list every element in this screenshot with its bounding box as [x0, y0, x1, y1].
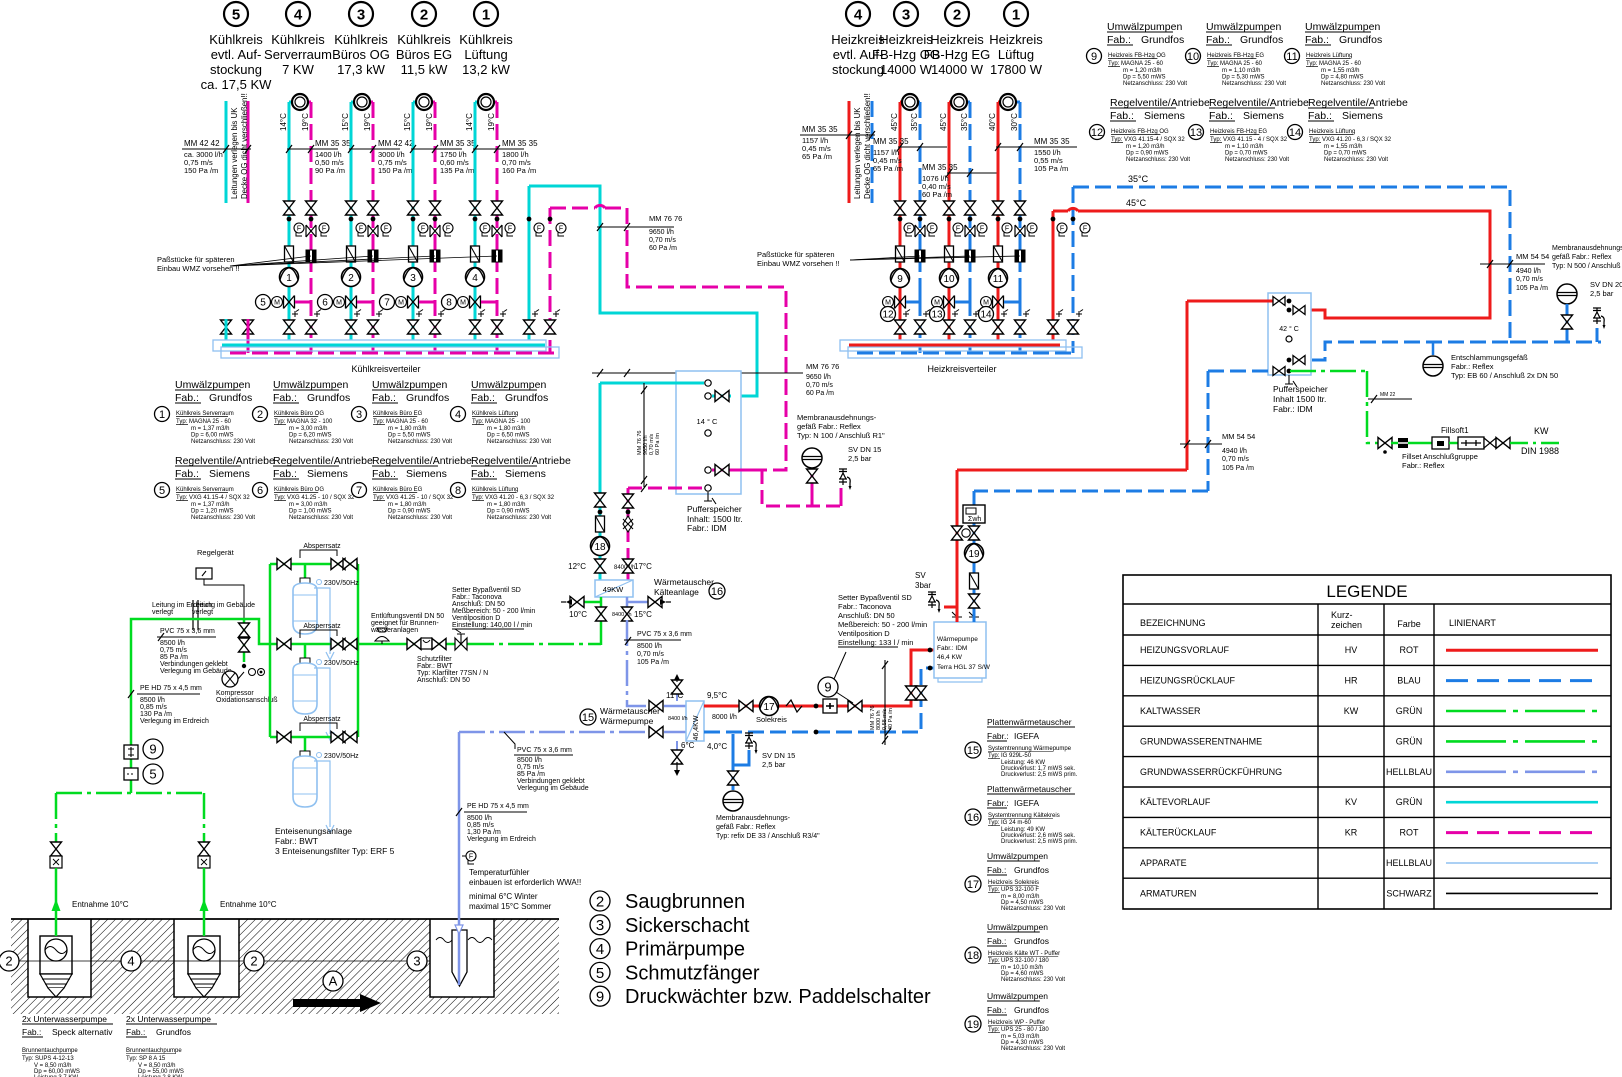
svg-text:HEIZUNGSRÜCKLAUF: HEIZUNGSRÜCKLAUF	[1140, 676, 1236, 686]
svg-text:Membranausdehnungs-: Membranausdehnungs-	[716, 815, 791, 822]
svg-text:Oxidationsanschluß: Oxidationsanschluß	[216, 697, 277, 704]
svg-text:BEZEICHNUNG: BEZEICHNUNG	[1140, 618, 1206, 628]
svg-text:Setter Bypaßventil SD: Setter Bypaßventil SD	[838, 593, 912, 602]
svg-text:9: 9	[1091, 51, 1097, 63]
svg-text:14000 W: 14000 W	[880, 62, 933, 77]
valve bottom KV 2	[346, 320, 357, 334]
fill plus marks	[292, 310, 299, 318]
svg-text:230V/50Hz: 230V/50Hz	[324, 660, 359, 667]
svg-text:40°C: 40°C	[988, 113, 997, 131]
svg-text:m = 1,20 m3/h: m = 1,20 m3/h	[1126, 144, 1165, 150]
valve header KR	[545, 320, 556, 334]
circuit label 2	[945, 2, 969, 26]
svg-text:verlegt: verlegt	[192, 609, 213, 616]
infiltration probe	[436, 938, 492, 943]
svg-text:Primärpumpe: Primärpumpe	[625, 939, 745, 961]
svg-text:9: 9	[824, 680, 831, 695]
svg-text:35°C: 35°C	[960, 113, 969, 131]
fill plus marks	[478, 310, 485, 318]
pipe HR tank to WP	[1207, 371, 1210, 491]
pipe KR from exchanger	[627, 488, 630, 580]
valve bottom HV 10	[944, 320, 955, 334]
drain line 230V	[314, 588, 334, 660]
fill plus marks	[354, 310, 361, 318]
svg-text:Regelventile/Antriebe: Regelventile/Antriebe	[175, 455, 275, 467]
svg-text:Umwälzpumpen: Umwälzpumpen	[372, 379, 447, 391]
svg-text:2,5 bar: 2,5 bar	[848, 454, 872, 463]
strainer KV 1	[285, 246, 294, 262]
submersible pump well 2	[188, 936, 220, 974]
svg-text:Schmutzfänger: Schmutzfänger	[625, 962, 760, 984]
svg-text:Kühlkreis: Kühlkreis	[271, 32, 325, 47]
valve bottom KV 4	[470, 320, 481, 334]
svg-text:Lüftung: Lüftung	[464, 47, 507, 62]
svg-text:m = 3,00 m3/h: m = 3,00 m3/h	[289, 502, 328, 508]
valve shutoff HR 9	[915, 201, 926, 215]
svg-text:evtl. Auf-: evtl. Auf-	[211, 47, 262, 62]
fill plus header	[1056, 310, 1063, 318]
svg-text:Dp = 1,00 mWS: Dp = 1,00 mWS	[289, 509, 332, 515]
passpiece WMZ KR 4	[492, 250, 502, 262]
valve drain HR 10	[965, 225, 975, 237]
callout A flow direction	[323, 971, 343, 991]
svg-text:Typ: EB 60 / Anschluß 2x DN 50: Typ: EB 60 / Anschluß 2x DN 50	[1451, 371, 1558, 380]
svg-text:Netzanschluss: 230 Volt: Netzanschluss: 230 Volt	[1222, 81, 1286, 87]
svg-text:m = 1,80 m3/h: m = 1,80 m3/h	[388, 426, 427, 432]
setter bypass valve	[455, 638, 467, 650]
svg-text:45°C: 45°C	[939, 113, 948, 131]
svg-text:60 Pa /m: 60 Pa /m	[922, 190, 952, 199]
svg-text:Heizkreis WP - Puffer: Heizkreis WP - Puffer	[988, 1020, 1045, 1026]
svg-text:Kühlkreis Lüftung: Kühlkreis Lüftung	[472, 487, 518, 493]
svg-text:Dp = 6,00 mWS: Dp = 6,00 mWS	[191, 433, 234, 439]
svg-text:5: 5	[232, 7, 240, 24]
strainer KV 2	[347, 246, 356, 262]
pipe KR riser circuit pump 1	[310, 102, 313, 353]
svg-text:DIN 1988: DIN 1988	[1521, 446, 1559, 456]
svg-text:Regelventile/Antriebe: Regelventile/Antriebe	[1308, 97, 1408, 109]
pump P9 Heizkreis	[891, 269, 910, 288]
gauge F KR 2	[381, 223, 391, 236]
svg-text:MM 35 35: MM 35 35	[1034, 137, 1070, 146]
pipe HR expansion branch DE33	[733, 734, 749, 765]
svg-text:Siemens: Siemens	[406, 468, 447, 480]
svg-text:3 Enteisenungsfilter Typ: ERF: 3 Enteisenungsfilter Typ: ERF 5	[275, 846, 395, 856]
passpiece WMZ HR 10	[965, 250, 975, 262]
svg-text:Σwh: Σwh	[968, 516, 981, 523]
link line pumps	[9, 960, 430, 962]
svg-text:17800 W: 17800 W	[990, 62, 1043, 77]
passpiece WMZ KR 1	[306, 250, 316, 262]
svg-text:Schutzfilter: Schutzfilter	[417, 656, 452, 663]
svg-text:4: 4	[472, 273, 478, 284]
svg-text:MM 35 35: MM 35 35	[502, 139, 538, 148]
pipe KV to exchanger	[599, 383, 602, 580]
svg-text:4: 4	[854, 7, 863, 24]
svg-text:Grundfos: Grundfos	[156, 1027, 191, 1037]
valve shutoff KR 4	[492, 201, 503, 215]
svg-text:Typ: IG 929L-50: Typ: IG 929L-50	[988, 753, 1032, 759]
svg-text:KW: KW	[1534, 426, 1549, 436]
svg-text:Typ: VXG 41.15 - 4 / SQX 32: Typ: VXG 41.15 - 4 / SQX 32	[1210, 137, 1288, 143]
svg-text:2,5 bar: 2,5 bar	[762, 760, 786, 769]
svg-text:Heizkreis FB-Hzg EG: Heizkreis FB-Hzg EG	[1210, 129, 1267, 135]
sensor dots	[411, 217, 416, 222]
svg-text:19°C: 19°C	[301, 113, 310, 131]
fill plus marks	[952, 310, 959, 318]
gauge F HR 11	[1027, 223, 1037, 236]
svg-text:13: 13	[1190, 127, 1202, 139]
svg-text:Speck alternativ: Speck alternativ	[52, 1027, 113, 1037]
svg-text:Kühlkreis: Kühlkreis	[334, 32, 388, 47]
svg-text:Verlegung im Erdreich: Verlegung im Erdreich	[467, 836, 536, 843]
svg-text:Regelventile/Antriebe: Regelventile/Antriebe	[273, 455, 373, 467]
valve shutoff HV 9	[895, 201, 906, 215]
valve drain KR 1	[306, 225, 316, 237]
svg-text:17°C: 17°C	[634, 562, 652, 571]
svg-text:12: 12	[1091, 127, 1103, 139]
safety valve SV DN15 left	[840, 488, 843, 506]
callout 3 well3	[407, 951, 427, 971]
svg-text:Heizkreis FB-Hzg OG: Heizkreis FB-Hzg OG	[1111, 129, 1169, 135]
svg-text:5: 5	[260, 298, 266, 309]
pipe KW main to plant room	[358, 643, 468, 646]
callout 4 middle	[121, 951, 141, 971]
svg-text:Umwälzpumpen: Umwälzpumpen	[1206, 21, 1281, 33]
legend row ARMATUREN	[1123, 877, 1611, 879]
svg-text:Fabr.: Taconova: Fabr.: Taconova	[452, 594, 502, 601]
svg-text:Decke OG dicht verschließen!!: Decke OG dicht verschließen!!	[240, 93, 249, 199]
valve drain HR 11	[1015, 225, 1025, 237]
svg-text:Fab.:: Fab.:	[471, 468, 495, 480]
bypass HR stub	[906, 301, 920, 304]
svg-text:Siemens: Siemens	[209, 468, 250, 480]
svg-text:Meßbereich: 50 - 200 l/min: Meßbereich: 50 - 200 l/min	[838, 620, 927, 629]
svg-text:Typ: UPS 32-100 F: Typ: UPS 32-100 F	[988, 887, 1039, 893]
svg-text:Verlegung im Erdreich: Verlegung im Erdreich	[140, 718, 209, 725]
svg-text:Fab.:: Fab.:	[273, 392, 297, 404]
gauge F KV 1	[294, 223, 304, 236]
svg-text:MM 35 35: MM 35 35	[922, 163, 958, 172]
deironing row 1	[270, 563, 358, 566]
svg-text:Paßstücke für späteren: Paßstücke für späteren	[157, 255, 235, 264]
svg-text:Fabr.:: Fabr.:	[987, 798, 1009, 808]
svg-text:2: 2	[250, 954, 257, 969]
valve into exchanger bottom	[649, 727, 663, 738]
pipe KR riser circuit pump 4	[496, 102, 499, 353]
sensor dots	[473, 217, 478, 222]
svg-text:Typ: VXG 41.25 - 10 / SQX 32: Typ: VXG 41.25 - 10 / SQX 32	[274, 495, 355, 501]
svg-text:Netzanschluss: 230 Volt: Netzanschluss: 230 Volt	[1123, 81, 1187, 87]
drain line 230V	[314, 668, 334, 740]
svg-text:Fabr.: IDM: Fabr.: IDM	[937, 645, 967, 652]
svg-text:Druckverlust: 2,5 mWS prim.: Druckverlust: 2,5 mWS prim.	[1001, 839, 1078, 845]
valve bottom KR 1	[306, 320, 317, 334]
pump P19	[965, 544, 984, 563]
well 1 Saugbrunnen	[28, 919, 91, 997]
expansion vessel N100 connection	[811, 466, 814, 506]
circuit label 3	[349, 2, 373, 26]
svg-text:minimal 6°C Winter: minimal 6°C Winter	[469, 892, 538, 901]
svg-text:4940 l/h: 4940 l/h	[1516, 268, 1541, 275]
svg-text:Grundfos: Grundfos	[209, 392, 252, 404]
svg-text:Netzanschluss: 230 Volt: Netzanschluss: 230 Volt	[1324, 157, 1388, 163]
heat exchanger 49KW Kaelteanlage	[595, 580, 633, 597]
control valve M 7	[396, 296, 419, 309]
svg-text:Typ: SUPS 4-12-13: Typ: SUPS 4-12-13	[22, 1056, 74, 1062]
svg-text:2: 2	[596, 893, 604, 910]
svg-text:Umwälzpumpen: Umwälzpumpen	[273, 379, 348, 391]
svg-text:GRUNDWASSERENTNAHME: GRUNDWASSERENTNAHME	[1140, 736, 1262, 746]
svg-text:Wärmepumpe: Wärmepumpe	[937, 636, 978, 643]
svg-text:ROT: ROT	[1400, 645, 1420, 655]
sensor dots header	[1051, 217, 1056, 222]
setter valve	[848, 701, 862, 712]
pump top circuit 1	[292, 94, 308, 110]
svg-text:Grundfos: Grundfos	[1240, 34, 1283, 46]
pipe HV header riser	[1052, 211, 1055, 340]
svg-text:9650 l/h: 9650 l/h	[649, 229, 674, 236]
svg-text:Heizkreis Kälte WT - Puffer: Heizkreis Kälte WT - Puffer	[988, 951, 1060, 957]
svg-text:Netzanschluss: 230 Volt: Netzanschluss: 230 Volt	[1001, 977, 1065, 983]
svg-text:3: 3	[356, 409, 362, 421]
fill group valves	[1378, 438, 1392, 449]
svg-text:35°C: 35°C	[1128, 174, 1149, 184]
svg-text:Anschluß: DN 50: Anschluß: DN 50	[417, 677, 470, 684]
pump top circuit 3	[416, 94, 432, 110]
flow label MM22	[1368, 398, 1412, 400]
svg-text:m = 1,37 m3/h: m = 1,37 m3/h	[191, 502, 230, 508]
protective filter Schutzfilter	[407, 639, 421, 650]
svg-text:Umwälzpumpen: Umwälzpumpen	[1107, 21, 1182, 33]
gauge F HV 9	[904, 223, 914, 236]
svg-text:1: 1	[482, 7, 490, 24]
pipe KR riser circuit pump 3	[434, 102, 437, 353]
svg-text:m = 1,10 m3/h: m = 1,10 m3/h	[1225, 144, 1264, 150]
svg-text:HELLBLAU: HELLBLAU	[1386, 767, 1432, 777]
svg-text:Verbindungen geklebt: Verbindungen geklebt	[160, 661, 228, 668]
balancing unit	[823, 699, 837, 713]
svg-text:SV: SV	[915, 571, 926, 580]
gauge F HV 10	[953, 223, 963, 236]
svg-text:Umwälzpumpen: Umwälzpumpen	[987, 991, 1048, 1001]
control valve M 8	[458, 296, 481, 309]
svg-text:HEIZUNGSVORLAUF: HEIZUNGSVORLAUF	[1140, 645, 1230, 655]
svg-text:11,5 kW: 11,5 kW	[401, 62, 448, 77]
svg-text:Typ: Klarfilter 77SN / N: Typ: Klarfilter 77SN / N	[417, 670, 488, 677]
pipe HV riser circuit pump 10	[948, 102, 951, 340]
svg-text:10: 10	[943, 274, 955, 285]
svg-text:Büros OG: Büros OG	[332, 47, 390, 62]
svg-text:Typ: VXG 41.20 - 6,3 / SQX 32: Typ: VXG 41.20 - 6,3 / SQX 32	[472, 495, 555, 501]
valve 12C	[595, 559, 606, 573]
svg-text:Netzanschluss: 230 Volt: Netzanschluss: 230 Volt	[1321, 81, 1385, 87]
svg-text:KÄLTERÜCKLAUF: KÄLTERÜCKLAUF	[1140, 828, 1217, 838]
svg-text:Kühlkreis Serverraum: Kühlkreis Serverraum	[176, 411, 234, 417]
valve 10C green	[600, 597, 603, 645]
dimension line MM76 tank	[643, 383, 645, 487]
svg-text:Grundfos: Grundfos	[1014, 1005, 1049, 1015]
svg-text:105 Pa /m: 105 Pa /m	[1222, 465, 1254, 472]
callout 2 right	[244, 951, 264, 971]
valve KV	[595, 493, 606, 507]
svg-text:GRÜN: GRÜN	[1396, 706, 1423, 716]
svg-text:SV DN 15: SV DN 15	[848, 445, 881, 454]
svg-text:230V/50Hz: 230V/50Hz	[324, 753, 359, 760]
svg-text:m = 1,80 m3/h: m = 1,80 m3/h	[487, 426, 526, 432]
svg-text:18: 18	[594, 542, 606, 553]
svg-text:Regelventile/Antriebe: Regelventile/Antriebe	[1209, 97, 1309, 109]
svg-text:einbauen ist erforderlich WWA!: einbauen ist erforderlich WWA!!	[469, 878, 581, 887]
svg-text:HELLBLAU: HELLBLAU	[1386, 858, 1432, 868]
svg-text:5: 5	[149, 767, 156, 782]
svg-text:Regelventile/Antriebe: Regelventile/Antriebe	[1110, 97, 1210, 109]
pipe HV from WP up	[956, 470, 959, 622]
svg-text:Dp = 1,20 mWS: Dp = 1,20 mWS	[191, 509, 234, 515]
svg-text:BLAU: BLAU	[1397, 676, 1421, 686]
valve bottom KV 3	[408, 320, 419, 334]
drain tank bottom	[704, 492, 716, 504]
svg-text:Kurz-: Kurz-	[1331, 610, 1353, 620]
svg-text:SV DN 15: SV DN 15	[762, 751, 795, 760]
buffer tank Pufferspeicher 1500l warm	[1268, 293, 1311, 375]
heat meter WMZ	[963, 505, 985, 523]
svg-text:0,75 m/s: 0,75 m/s	[160, 647, 187, 654]
svg-text:Kühlkreis Büro EG: Kühlkreis Büro EG	[373, 487, 423, 493]
passpiece WMZ HR 11	[1015, 250, 1025, 262]
gauge F HV 11	[1002, 223, 1012, 236]
pump P4 Kuehlkreis	[466, 268, 485, 287]
svg-text:Typ: MAGNA 25 - 60: Typ: MAGNA 25 - 60	[1207, 61, 1263, 67]
svg-text:m = 1,80 m3/h: m = 1,80 m3/h	[487, 502, 526, 508]
svg-text:Fabr.: Reflex: Fabr.: Reflex	[1451, 362, 1494, 371]
submersible pump well 1	[40, 936, 72, 974]
pipe Solekreis HV riser to WP	[906, 650, 934, 706]
valve header HR	[1068, 320, 1079, 334]
strainer HV 9	[896, 246, 905, 262]
svg-text:Fab.:: Fab.:	[372, 468, 396, 480]
well 2 Saugbrunnen	[174, 919, 239, 997]
compressor branch	[243, 619, 246, 662]
svg-text:Typ: SP 8 A 15: Typ: SP 8 A 15	[126, 1056, 166, 1062]
svg-text:APPARATE: APPARATE	[1140, 858, 1187, 868]
svg-text:40 Pa /m: 40 Pa /m	[888, 708, 894, 730]
gauge F KV 3	[418, 223, 428, 236]
svg-text:Umwälzpumpen: Umwälzpumpen	[1305, 21, 1380, 33]
svg-text:45°C: 45°C	[890, 113, 899, 131]
svg-text:Plattenwärmetauscher: Plattenwärmetauscher	[987, 784, 1072, 794]
fill plus marks	[903, 310, 910, 318]
legend table LEGENDE	[1123, 575, 1611, 909]
svg-text:Fab.:: Fab.:	[1305, 34, 1329, 46]
svg-text:Dp = 6,50 mWS: Dp = 6,50 mWS	[487, 433, 530, 439]
pump top Heizkreis 11	[1000, 94, 1016, 110]
svg-text:3: 3	[357, 7, 365, 24]
circuit label 1	[474, 2, 498, 26]
bypass HR stub	[1004, 301, 1020, 304]
svg-text:Brunnentauchpumpe: Brunnentauchpumpe	[22, 1048, 78, 1054]
pipe KR tank lower port	[712, 469, 762, 472]
svg-text:4940 l/h: 4940 l/h	[1222, 448, 1247, 455]
control valve M 5	[272, 296, 295, 309]
svg-text:Plattenwärmetauscher: Plattenwärmetauscher	[987, 717, 1072, 727]
buffer tank Pufferspeicher 1500l cold	[676, 371, 741, 494]
svg-text:2: 2	[348, 273, 354, 284]
pipe KV riser circuit pump 2	[350, 102, 353, 340]
svg-text:10: 10	[1187, 51, 1199, 63]
svg-text:Einstellung: 133 l / min: Einstellung: 133 l / min	[838, 638, 913, 647]
pump P17 Solekreis	[760, 697, 779, 716]
svg-text:105 Pa /m: 105 Pa /m	[1516, 285, 1548, 292]
svg-text:Netzanschluss: 230 Volt: Netzanschluss: 230 Volt	[487, 439, 551, 445]
exchanger vent stub top	[676, 691, 678, 701]
svg-text:Verlegung im Gebäude: Verlegung im Gebäude	[160, 668, 232, 675]
pipe well 1 extraction	[55, 793, 58, 844]
svg-text:KALTWASSER: KALTWASSER	[1140, 706, 1201, 716]
svg-text:Grundfos: Grundfos	[1339, 34, 1382, 46]
svg-text:Typ: MAGNA 25 - 60: Typ: MAGNA 25 - 60	[176, 419, 232, 425]
valve shutoff HR 10	[965, 201, 976, 215]
svg-text:Entnahme 10°C: Entnahme 10°C	[72, 900, 129, 909]
svg-text:Grundfos: Grundfos	[307, 392, 350, 404]
heat exchanger 46,4KW Waermepumpe	[686, 701, 704, 741]
valve bottom HV 11	[993, 320, 1004, 334]
svg-text:stockung: stockung	[832, 62, 884, 77]
svg-text:Lüftug: Lüftug	[998, 47, 1034, 62]
svg-text:9: 9	[596, 989, 604, 1006]
dimension line MM76 sole	[884, 660, 886, 745]
svg-text:KW: KW	[1344, 706, 1359, 716]
svg-text:9: 9	[897, 274, 903, 285]
svg-text:Netzanschluss: 230 Volt: Netzanschluss: 230 Volt	[388, 515, 452, 521]
svg-text:Dp = 0,70 mWS: Dp = 0,70 mWS	[1324, 151, 1367, 157]
svg-text:Typ: N 100 / Anschluß R1": Typ: N 100 / Anschluß R1"	[797, 431, 885, 440]
svg-text:46,4KW: 46,4KW	[693, 715, 700, 740]
svg-text:Kühlkreis Büro EG: Kühlkreis Büro EG	[373, 411, 423, 417]
pipe KV header riser	[528, 186, 531, 340]
svg-text:m = 1,55 m3/h: m = 1,55 m3/h	[1321, 68, 1360, 74]
svg-text:Heizkreis Solekreis: Heizkreis Solekreis	[988, 880, 1039, 886]
svg-text:Kühlkreis Büro OG: Kühlkreis Büro OG	[274, 487, 324, 493]
svg-text:Heizkreis: Heizkreis	[989, 32, 1043, 47]
svg-text:19: 19	[968, 549, 980, 560]
valve bottom KR 2	[368, 320, 379, 334]
svg-text:PVC 75 x 3,6 mm: PVC 75 x 3,6 mm	[517, 747, 572, 754]
svg-text:Dp = 4,80 mWS: Dp = 4,80 mWS	[1321, 75, 1364, 81]
pipe KV riser circuit pump 1	[288, 102, 291, 340]
svg-text:Netzanschluss: 230 Volt: Netzanschluss: 230 Volt	[1001, 1046, 1065, 1052]
svg-text:Regelventile/Antriebe: Regelventile/Antriebe	[372, 455, 472, 467]
manifold KV flow line	[222, 344, 545, 347]
svg-text:m = 1,80 m3/h: m = 1,80 m3/h	[388, 502, 427, 508]
svg-text:PVC 75 x 3,6 mm: PVC 75 x 3,6 mm	[637, 631, 692, 638]
svg-text:Solekreis: Solekreis	[756, 715, 787, 724]
pipe HV stub future	[848, 101, 851, 203]
valve KV tank inlet	[712, 395, 731, 398]
valve stub circuit5 KV	[221, 320, 232, 334]
pipe HR riser circuit pump 9	[919, 102, 922, 353]
gauge F header KR	[556, 223, 566, 236]
svg-text:Fab.:: Fab.:	[22, 1027, 41, 1037]
svg-text:MM 35 35: MM 35 35	[440, 139, 476, 148]
circuit label 4	[286, 2, 310, 26]
svg-text:14: 14	[980, 310, 992, 321]
valve header KV	[524, 320, 535, 334]
svg-text:60 Pa /m: 60 Pa /m	[806, 390, 834, 397]
circuit label 1	[1004, 2, 1028, 26]
sensor dots	[349, 217, 354, 222]
svg-text:7 KW: 7 KW	[282, 62, 315, 77]
